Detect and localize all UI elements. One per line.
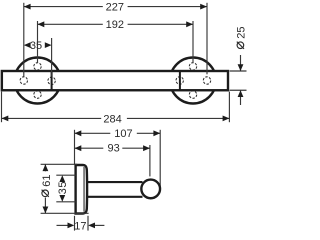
dimension 35 lower arrow (side view) xyxy=(59,195,65,202)
right flange circle xyxy=(170,58,216,104)
right flange bottom screw hole xyxy=(189,91,196,98)
extension line bar right end xyxy=(228,92,230,123)
dimension 107 line xyxy=(75,132,111,134)
extension line wall plane xyxy=(74,130,76,165)
svg-text:93: 93 xyxy=(107,142,119,154)
right tube seam line xyxy=(179,71,181,90)
extension line left outer hole xyxy=(23,3,25,77)
dimension diameter 61 upper arrow xyxy=(43,164,49,171)
svg-text:17: 17 xyxy=(74,220,86,232)
arm bottom edge (side view) xyxy=(88,196,143,198)
dimension 227 right arrow xyxy=(200,4,207,10)
extension line flange front (17) xyxy=(87,216,89,231)
dimension 35 upper arrow (side view) xyxy=(59,175,65,182)
dimension 284 right arrow xyxy=(223,116,230,122)
svg-text:61: 61 xyxy=(41,175,53,187)
dimension 192 right arrow xyxy=(186,21,193,27)
extension line left flange centerline xyxy=(37,21,39,62)
diameter symbol for 25 xyxy=(237,42,244,49)
svg-text:192: 192 xyxy=(106,19,124,31)
svg-text:284: 284 xyxy=(103,113,121,125)
svg-text:25: 25 xyxy=(236,27,248,39)
extension line right flange centerline xyxy=(192,21,194,62)
dimension diameter 25 lower arrow xyxy=(238,90,244,97)
dimension 284 line xyxy=(2,117,102,119)
dimension 192 line xyxy=(38,23,103,25)
left flange top screw hole xyxy=(34,63,41,70)
wall flange plate inner seam (side view) xyxy=(83,167,85,212)
right flange inner side screw hole (hidden) xyxy=(176,77,183,84)
extension line flange top (dia 61) xyxy=(41,163,78,165)
dimension diameter 25 line lower xyxy=(240,90,242,105)
dimension 17 right tail xyxy=(95,224,104,226)
dimension diameter 61 line lower xyxy=(44,198,46,214)
extension line bar left end xyxy=(1,92,3,123)
right flange outer side screw hole (hidden) xyxy=(203,77,210,84)
left flange outer side screw hole (hidden) xyxy=(20,77,27,84)
extension line tube bottom edge xyxy=(230,89,247,91)
dimension 35 left arrow (top view) xyxy=(24,42,31,48)
dimension 107 left arrow xyxy=(75,130,82,136)
dimension 17 left tail xyxy=(57,224,68,226)
extension line tube centerline (side view) xyxy=(149,145,151,176)
right flange top screw hole xyxy=(189,63,196,70)
extension line tube top edge xyxy=(230,70,247,72)
tube end circle (side view) xyxy=(141,180,160,199)
dimension 227 line xyxy=(24,6,103,8)
dimension diameter 25 upper arrow xyxy=(238,64,244,71)
dimension 93 right arrow xyxy=(143,145,150,151)
extension line left inner hole xyxy=(51,38,53,77)
extension line tube outer edge (side view) xyxy=(159,130,161,187)
svg-text:35: 35 xyxy=(57,181,69,195)
extension line hole top (35 side view) xyxy=(56,174,75,176)
dimension 17 left arrow xyxy=(68,223,75,229)
wall flange plate (side view) xyxy=(76,165,88,214)
extension line right outer hole xyxy=(206,3,208,75)
dimension diameter 25 line upper xyxy=(240,55,242,71)
svg-text:227: 227 xyxy=(106,2,124,14)
bar tube body (front view) xyxy=(2,71,228,90)
diameter symbol for 61 xyxy=(42,190,49,197)
left flange bottom screw hole xyxy=(34,91,41,98)
dimension 17 right arrow xyxy=(88,223,95,229)
svg-text:35: 35 xyxy=(30,40,42,52)
dimension diameter 61 lower arrow xyxy=(43,207,49,214)
svg-text:107: 107 xyxy=(114,128,132,140)
dimension 93 line xyxy=(75,147,104,149)
left flange circle xyxy=(15,58,61,104)
left tube seam line xyxy=(51,71,53,90)
dimension 35 right arrow (top view) xyxy=(45,42,52,48)
dimension 227 left arrow xyxy=(24,4,31,10)
arm top edge (side view) xyxy=(88,181,143,183)
dimension diameter 61 line upper xyxy=(44,164,46,171)
extension line flange bottom (dia 61) xyxy=(41,212,89,214)
dimension 107 right arrow xyxy=(153,130,160,136)
left flange inner side screw hole (hidden) xyxy=(48,77,55,84)
extension line hole bottom (35 side view) xyxy=(56,201,75,203)
extension line wall plane lower (17) xyxy=(74,216,76,231)
dimension 93 left arrow xyxy=(75,145,82,151)
dimension 192 left arrow xyxy=(38,21,45,27)
dimension 284 left arrow xyxy=(2,116,9,122)
